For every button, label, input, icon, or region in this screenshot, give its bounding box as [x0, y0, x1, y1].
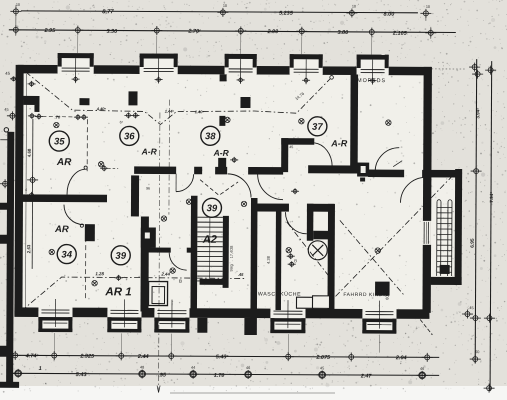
building interior paper	[17, 66, 430, 316]
door arc hall/stair	[176, 174, 194, 192]
svg-text:1.40⁵: 1.40⁵	[195, 109, 205, 114]
dash right of tick	[108, 167, 118, 169]
svg-text:FAHRRD KINDW.: FAHRRD KINDW.	[343, 292, 389, 298]
bottom window jamb L	[154, 318, 158, 333]
window center tick	[369, 78, 377, 84]
svg-text:10: 10	[16, 3, 20, 7]
corner diagonal mark	[416, 315, 432, 335]
door arc corridor L	[228, 174, 252, 198]
window center tick	[302, 77, 310, 83]
lamp symbol	[375, 248, 380, 253]
bottom window frame bottom	[154, 329, 189, 333]
svg-text:6.95: 6.95	[470, 238, 476, 248]
annex ladder rungs	[437, 207, 452, 272]
right dim tick	[470, 355, 481, 364]
bottom window jamb L	[362, 319, 366, 334]
left wall stub 3	[0, 346, 7, 357]
bottom window frame top	[270, 318, 305, 322]
interior dim tick	[35, 113, 43, 119]
dim tick line1	[420, 9, 431, 18]
left wall stub hook	[34, 105, 39, 112]
tick right of AR	[100, 165, 108, 171]
top window head	[140, 53, 178, 58]
left boundary wall	[6, 132, 14, 386]
double ring tick	[245, 371, 252, 378]
bottom window frame bottom	[362, 330, 396, 334]
door arc room35	[67, 169, 85, 195]
svg-text:2.04: 2.04	[395, 355, 407, 361]
double ring tick	[190, 371, 197, 378]
left dim tick	[7, 111, 18, 120]
room circle 38	[201, 126, 220, 145]
bottom dim tick 2	[243, 370, 254, 379]
top window mullion	[372, 60, 374, 85]
interior wall y167 segB	[215, 167, 227, 175]
bottom exterior wall segment	[396, 309, 429, 319]
svg-text:2.90: 2.90	[266, 29, 278, 35]
interior tick 295	[291, 188, 299, 194]
door arc waschkueche	[285, 212, 307, 234]
tick on wall y196	[27, 192, 36, 199]
svg-text:4.38: 4.38	[266, 255, 271, 264]
bottom window box inner line	[367, 324, 391, 326]
svg-text:A-R: A-R	[141, 146, 158, 156]
witness arrow x159	[157, 386, 160, 393]
svg-text:46: 46	[420, 367, 424, 371]
top window head	[58, 53, 94, 58]
svg-text:45: 45	[289, 145, 293, 149]
door arc mopeds	[375, 148, 399, 172]
annex wall bottom	[431, 277, 462, 285]
bottom window frame top	[362, 319, 396, 323]
bottom window mullion	[171, 300, 173, 328]
svg-text:5.43: 5.43	[76, 372, 88, 378]
svg-text:2.63: 2.63	[26, 244, 31, 253]
interior dim tick	[80, 114, 88, 120]
top window head	[225, 54, 257, 59]
stairwell wall right	[250, 198, 257, 335]
left wall stub 1	[0, 203, 8, 210]
svg-text:3.30: 3.30	[106, 29, 117, 35]
lamp symbol	[161, 216, 166, 221]
svg-text:39: 39	[207, 203, 218, 214]
chimney block room34	[85, 224, 95, 241]
wash box	[148, 281, 167, 305]
dim tick line2	[296, 27, 307, 36]
svg-text:39: 39	[115, 251, 126, 262]
pier room35 top	[79, 98, 89, 105]
bottom window box inner line	[275, 323, 300, 325]
lamp symbol	[92, 281, 97, 286]
bottom exterior wall segment	[141, 308, 154, 318]
svg-text:5.43⁵: 5.43⁵	[216, 354, 230, 360]
svg-text:3.94⁵: 3.94⁵	[475, 108, 480, 119]
stair walk line	[209, 218, 211, 278]
top window jamb L	[140, 53, 144, 67]
interior wall y165 segD	[308, 165, 353, 173]
svg-text:3.80: 3.80	[337, 30, 348, 36]
svg-text:2.925: 2.925	[79, 354, 95, 360]
right dim connector2	[430, 27, 432, 39]
chimney block mid	[141, 227, 156, 247]
annex stair dark block	[440, 265, 450, 274]
top window sill line 2	[62, 70, 90, 72]
extension line	[240, 36, 242, 54]
door arc room37 alcove	[314, 143, 332, 167]
interior dim line y117	[42, 115, 74, 117]
door arc to annex	[400, 177, 426, 203]
room circle 36	[120, 126, 139, 145]
door arc corridor R	[258, 174, 284, 200]
right dimension line B	[490, 61, 492, 391]
svg-text:4.74⁵: 4.74⁵	[25, 353, 40, 359]
svg-text:45: 45	[5, 71, 10, 76]
svg-text:2.95: 2.95	[43, 28, 56, 34]
svg-text:8.00: 8.00	[384, 12, 395, 18]
wall pier above y167	[218, 158, 226, 168]
waschkueche wall left x276	[275, 206, 281, 310]
svg-text:36: 36	[124, 131, 135, 142]
left small tick	[10, 76, 17, 81]
bottom window frame bottom	[107, 329, 141, 333]
bottom window box inner line	[112, 322, 136, 324]
door arc washbox room	[169, 253, 187, 271]
top window sill line	[229, 68, 253, 70]
lamp symbol	[286, 247, 291, 252]
bottom window jamb R	[392, 319, 396, 334]
bottom window box inner line	[43, 322, 67, 324]
top window mullion	[240, 59, 242, 84]
witness line x169	[168, 100, 171, 215]
wall y204 segA	[255, 204, 289, 212]
right dim tick	[462, 310, 473, 319]
svg-text:.70: .70	[55, 115, 61, 120]
room circle 35	[49, 131, 69, 151]
bottom exterior wall segment	[189, 308, 270, 318]
top exterior wall segment	[18, 65, 58, 74]
bottom window jamb L	[38, 317, 42, 332]
svg-text:A2: A2	[202, 234, 217, 246]
dim tick line1	[217, 8, 228, 17]
top window sill line 2	[361, 72, 385, 74]
right dimension line A	[475, 59, 476, 363]
interior dim tick	[74, 114, 82, 120]
svg-text:8,77: 8,77	[102, 9, 114, 15]
svg-text:35: 35	[54, 136, 65, 147]
left thin line	[0, 139, 14, 141]
scan noise blobs	[328, 28, 331, 31]
door leaf mopeds	[393, 161, 402, 167]
top exterior wall segment	[257, 66, 290, 75]
shaft dark block	[313, 231, 328, 240]
bottom window sill line2	[110, 312, 138, 314]
top window jamb R	[253, 54, 257, 68]
svg-text:34: 34	[61, 249, 72, 260]
left wall stub interior	[23, 96, 39, 105]
right exterior wall upper	[423, 67, 432, 221]
interior wall divider x141	[140, 216, 148, 311]
room circle 34	[57, 245, 76, 264]
wall y248 stub	[187, 248, 194, 253]
dim tick line2	[366, 28, 377, 37]
svg-text:5.235: 5.235	[279, 11, 294, 17]
svg-text:4.68: 4.68	[27, 148, 32, 157]
bottom dimension line 1	[9, 355, 439, 357]
bottom dim tick 1	[422, 353, 433, 362]
bottom window sill line2	[41, 312, 69, 314]
svg-text:9stg: 9stg	[230, 264, 234, 271]
bottom window jamb L	[107, 317, 111, 332]
sight V at stair head	[200, 180, 238, 196]
lamp symbol	[225, 117, 230, 122]
double ring tick	[419, 372, 426, 379]
pier between rooms 38/37	[240, 97, 250, 108]
interior wall y167 segA	[134, 166, 176, 174]
bottom window frame top	[107, 317, 141, 321]
sight line fahrrad 2	[340, 220, 405, 295]
bottom window sill line2	[157, 313, 186, 315]
window center tick	[72, 76, 80, 82]
svg-text:1.44⁵: 1.44⁵	[165, 109, 175, 114]
shaft wall left x307	[307, 204, 314, 241]
top window jamb R	[385, 55, 389, 69]
scan speckle noise	[324, 9, 325, 10]
top exterior wall segment	[323, 66, 357, 75]
bottom dim tick 1	[283, 352, 294, 361]
bottom window jamb R	[301, 318, 305, 333]
bottom exterior wall segment	[305, 309, 362, 319]
svg-text:2.075: 2.075	[315, 355, 331, 361]
bottom dim tick 2	[188, 370, 199, 379]
right dim tick	[469, 63, 480, 72]
pier between rooms 35/36	[128, 91, 137, 105]
porch post L	[197, 318, 207, 333]
bottom dim tick 1	[10, 351, 21, 360]
interior dim tick	[131, 112, 139, 118]
stair mid rail	[223, 216, 229, 288]
bottom window frame bottom	[38, 328, 72, 332]
stairwell wall left	[190, 196, 197, 310]
extension line	[301, 36, 303, 54]
right dim tick	[485, 66, 496, 75]
annex ladder rails	[437, 200, 452, 276]
left dim connector	[15, 5, 17, 36]
top window head	[357, 55, 389, 60]
left wall inner face line lower	[24, 201, 27, 307]
svg-text:6⁶: 6⁶	[120, 120, 124, 124]
svg-text:17,4/28: 17,4/28	[230, 246, 234, 259]
svg-text:2.47: 2.47	[360, 374, 373, 380]
bottom window sill line	[110, 309, 138, 311]
top window sill line	[294, 68, 319, 70]
tick on diagonal	[28, 81, 36, 87]
svg-text:2.70⁶: 2.70⁶	[187, 29, 201, 35]
svg-text:AR 1: AR 1	[104, 286, 131, 298]
top dimension line 1	[21, 11, 418, 13]
bottom window sill line	[273, 310, 302, 312]
interior dim tick	[124, 112, 132, 118]
right wall door leaf	[423, 222, 425, 244]
wasch tick 2	[288, 261, 296, 267]
svg-text:1.70: 1.70	[214, 373, 225, 379]
top dimension line 2	[9, 30, 456, 33]
wasch sink boxes	[296, 296, 329, 309]
chimney dot	[360, 178, 365, 182]
svg-text:96: 96	[146, 186, 150, 190]
top window sill line 2	[144, 70, 174, 72]
svg-text:10: 10	[352, 4, 356, 8]
lamp symbol	[186, 199, 191, 204]
interior wall y169 segE	[368, 170, 404, 178]
svg-text:44: 44	[191, 366, 195, 370]
stair landing edge	[200, 279, 224, 285]
top exterior wall segment	[94, 65, 140, 74]
bottom dim tick 1	[49, 351, 60, 360]
bottom dim tick 1	[116, 351, 127, 360]
svg-text:A-R: A-R	[330, 138, 348, 148]
svg-text:AR: AR	[56, 157, 72, 168]
right dim tick	[471, 167, 482, 176]
lamp symbol	[299, 119, 304, 124]
porch post R	[244, 318, 254, 335]
svg-text:37: 37	[312, 122, 323, 133]
dim tick line2	[72, 26, 83, 35]
top window jamb R	[174, 54, 178, 68]
bottom window mullion	[287, 300, 289, 328]
extra margin speckle	[468, 181, 469, 182]
bottom window sill line	[41, 309, 69, 311]
door arc room34	[64, 205, 84, 225]
svg-text:MOPEDS: MOPEDS	[357, 78, 386, 84]
interior dim tick	[28, 113, 36, 119]
sight line waschkueche	[287, 222, 331, 278]
interior left dim line	[31, 119, 34, 269]
dim tick line2	[235, 26, 246, 35]
dim tick line1	[346, 8, 357, 17]
extension line	[371, 37, 373, 55]
top window sill line	[62, 67, 90, 69]
top window jamb L	[290, 54, 294, 68]
svg-text:B: B	[179, 279, 182, 284]
bottom dim tick 2	[417, 371, 428, 380]
top window sill line	[361, 69, 385, 71]
sight line upper	[25, 72, 330, 125]
svg-text:10: 10	[223, 4, 227, 8]
bottom exterior wall segment	[14, 307, 38, 317]
right dim tick	[484, 384, 495, 393]
bottom window sill line	[157, 310, 186, 312]
bottom dim tick 1	[346, 352, 357, 361]
interior wall divider x131	[131, 175, 139, 216]
left tick	[0, 179, 11, 188]
lamp symbol	[49, 249, 54, 254]
extension line	[77, 35, 79, 53]
annex top wall	[422, 170, 459, 178]
left exterior wall	[14, 65, 23, 316]
svg-text:48: 48	[140, 365, 144, 369]
interior wall room34 top	[21, 194, 107, 202]
svg-text:4.40⁶: 4.40⁶	[96, 106, 107, 111]
bottom window mullion	[378, 301, 380, 329]
left wall foot	[0, 382, 19, 388]
witness line x159	[159, 113, 160, 392]
bottom exterior wall segment	[72, 308, 107, 318]
svg-text:2.105: 2.105	[392, 31, 408, 37]
wall y204 over shaft	[307, 204, 334, 212]
bottom dim tick 2	[13, 369, 24, 378]
annex wall right	[455, 169, 463, 285]
bottom window frame bottom	[270, 330, 305, 334]
svg-text:7.94⁵: 7.94⁵	[489, 192, 494, 203]
bottom window mullion	[123, 299, 125, 327]
svg-text:.45: .45	[238, 272, 244, 277]
top window sill line 2	[229, 71, 253, 73]
stair circle 39	[202, 198, 221, 217]
svg-text:45: 45	[4, 108, 8, 112]
svg-text:46: 46	[246, 366, 250, 370]
bottom window sill line2	[273, 313, 302, 315]
top window sill line 2	[294, 71, 319, 73]
bottom extension line	[120, 333, 122, 351]
top window jamb L	[357, 55, 361, 69]
faint corner extension	[432, 68, 467, 70]
dim tick line2	[425, 28, 436, 37]
svg-text:45: 45	[469, 306, 473, 310]
scan smudge bottom	[170, 392, 335, 394]
top window jamb L	[225, 54, 229, 68]
left wall inner face line	[25, 74, 28, 194]
interior tick 234	[230, 157, 238, 163]
double ring tick	[15, 370, 22, 377]
lamp symbol	[54, 122, 59, 127]
interior left tick	[27, 175, 38, 184]
extension line	[156, 36, 158, 54]
svg-text:45: 45	[320, 366, 324, 370]
bottom window jamb R	[68, 317, 72, 332]
bottom extension line	[378, 335, 380, 353]
svg-text:10: 10	[426, 5, 430, 9]
wasch tick 1	[287, 253, 295, 259]
room circle 37	[308, 117, 327, 136]
bottom window sill line2	[365, 314, 393, 316]
bottom window box inner line	[159, 323, 184, 325]
lamp symbol	[386, 120, 391, 125]
bottom dim tick 2	[137, 369, 148, 378]
right dim connector	[425, 10, 427, 21]
svg-text:.95: .95	[158, 373, 167, 379]
top window head	[290, 54, 323, 59]
window center tick	[237, 77, 245, 83]
interior wall x350 room37 right	[350, 74, 358, 173]
lamp symbol	[98, 162, 103, 167]
lamp symbol	[241, 201, 246, 206]
dim tick line1	[10, 7, 21, 16]
top window jamb R	[319, 54, 323, 68]
top window sill line	[144, 67, 174, 69]
room circle 39L	[111, 246, 130, 265]
double ring tick	[319, 371, 326, 378]
dim tick line2	[10, 25, 21, 34]
svg-text:AR: AR	[54, 224, 69, 235]
window center tick	[155, 77, 163, 83]
svg-text:A-R: A-R	[213, 148, 230, 158]
bottom window jamb R	[137, 317, 141, 332]
lamp symbol	[170, 268, 175, 273]
bottom extension line	[53, 333, 55, 351]
interior wall y167 stub	[194, 167, 202, 175]
right dim tick	[470, 314, 481, 323]
right exterior wall lower	[422, 245, 431, 313]
